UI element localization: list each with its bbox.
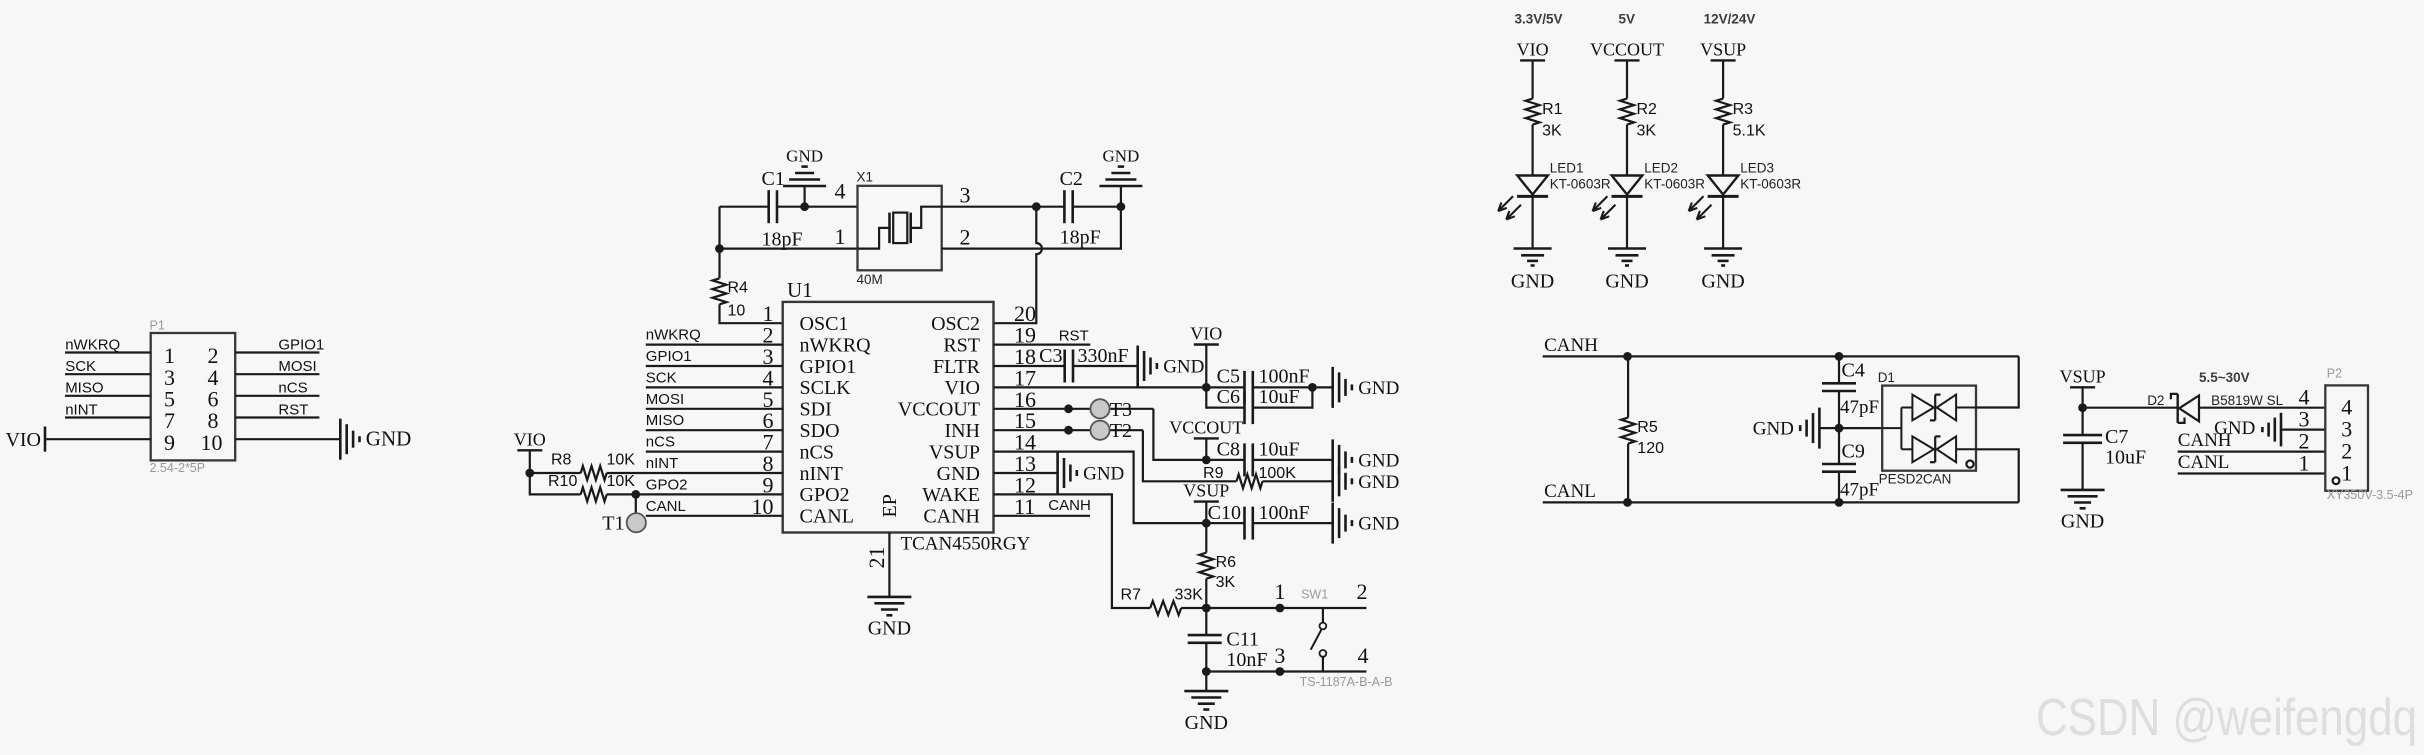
capacitor C2 (1063, 190, 1066, 223)
svg-text:D1: D1 (1878, 370, 1895, 385)
wire VCCOUT to R2 (1626, 60, 1628, 98)
svg-text:10: 10 (728, 303, 746, 320)
junction node OSC2 top (1032, 202, 1041, 211)
svg-text:C2: C2 (1060, 168, 1083, 190)
wire C7 top (2082, 408, 2084, 435)
svg-text:GND: GND (1185, 712, 1228, 734)
svg-text:GND: GND (1605, 271, 1648, 293)
svg-text:C10: C10 (1208, 502, 1241, 524)
switch SW1 (1322, 608, 1324, 623)
svg-text:C8: C8 (1217, 438, 1240, 460)
svg-text:10uF: 10uF (1259, 438, 1300, 460)
svg-text:R8: R8 (551, 452, 572, 469)
svg-text:nINT: nINT (800, 463, 843, 485)
svg-text:3: 3 (960, 182, 971, 207)
test point T3 (1090, 399, 1109, 418)
svg-text:R6: R6 (1216, 554, 1237, 571)
power flag VSUP at R3 (1711, 59, 1736, 61)
power flag VSUP at C10 (1194, 500, 1219, 502)
wire R9 to GND (1263, 480, 1333, 482)
svg-text:C4: C4 (1842, 360, 1865, 382)
svg-text:WAKE: WAKE (922, 484, 980, 506)
ground GND at C10 (1331, 503, 1334, 544)
wire net MISO to U1 pin 6 (646, 429, 783, 431)
svg-text:GPIO1: GPIO1 (800, 356, 857, 378)
wire U1 pin 19 RST (994, 344, 1091, 346)
ground GND at C3 (1136, 346, 1139, 387)
wire R7 to SW1 pin 2 (1181, 607, 1366, 609)
resistor R7 (1150, 601, 1181, 615)
wire R8 to U1 pin 8 (607, 472, 783, 474)
wire P1 pin 6 to net nCS (235, 395, 319, 397)
wire net MISO to P1 pin 5 (65, 395, 151, 397)
svg-text:U1: U1 (787, 278, 813, 302)
wire C9 to CANL (1838, 472, 1840, 503)
svg-text:1: 1 (2299, 451, 2310, 476)
wire C6 left branch (1206, 387, 1244, 407)
ground GND at C8 (1331, 439, 1334, 480)
resistor R10 (581, 487, 607, 501)
wire C7 bottom (2082, 443, 2084, 490)
power flag VIO at C5 (1194, 343, 1219, 345)
svg-text:GND: GND (2061, 511, 2104, 533)
svg-text:FLTR: FLTR (933, 356, 981, 378)
wire CANH to C4 (1838, 356, 1840, 383)
wire LED2 to GND (1626, 196, 1628, 248)
svg-text:3K: 3K (1216, 574, 1236, 591)
svg-text:R3: R3 (1733, 101, 1754, 118)
wire VSUP row to D2 (2083, 407, 2178, 409)
junction node SW1 pin 3 (1276, 667, 1285, 676)
svg-text:RST: RST (278, 401, 308, 418)
capacitor C6 (1243, 391, 1246, 424)
wire D2 to P2 pin 4 (2199, 407, 2325, 409)
ground GND below C11 (1184, 690, 1228, 693)
wire net nCS to U1 pin 7 (646, 451, 783, 453)
wire VCCOUT down to C8 row (1153, 409, 1244, 460)
wire C11 bottom to SW1 pin 4 (1205, 643, 1207, 672)
test point T2 (1090, 421, 1109, 440)
svg-text:nWKRQ: nWKRQ (800, 334, 872, 356)
wire net MOSI to U1 pin 5 (646, 408, 783, 410)
wire CANH to D1 upper right (1976, 356, 2019, 407)
svg-text:nCS: nCS (278, 380, 307, 397)
LED LED2 (1612, 176, 1643, 195)
resistor R3 (1716, 99, 1730, 125)
port VIO (44, 427, 47, 452)
test point T1 (627, 513, 646, 532)
svg-text:SDI: SDI (800, 399, 832, 421)
junction node C5-C6 right (1308, 383, 1317, 392)
IC U1 body (783, 302, 994, 533)
wire P1 pin 8 to net RST (235, 416, 319, 418)
wire GND stem below C11 (1205, 672, 1207, 692)
power flag VIO at R1 (1520, 59, 1545, 61)
wire VSUP to R3 (1722, 60, 1724, 98)
power flag VCCOUT at R2 (1615, 59, 1640, 61)
wire mid node to C9 (1838, 428, 1840, 464)
svg-text:GND: GND (1701, 271, 1744, 293)
resistor R2 (1620, 99, 1634, 125)
svg-text:3.3V/5V: 3.3V/5V (1514, 11, 1562, 26)
svg-text:CSDN @weifengdq: CSDN @weifengdq (2036, 689, 2417, 747)
wire OSC1 vertical to R4 (718, 207, 720, 279)
junction node T2 (1064, 426, 1073, 435)
wire C6 right branch (1253, 387, 1313, 407)
svg-text:OSC2: OSC2 (931, 313, 980, 335)
power flag VIO at R8 (517, 449, 542, 451)
wire R10 to U1 pin 9 (607, 493, 783, 495)
svg-text:KT-0603R: KT-0603R (1740, 176, 1801, 191)
svg-text:CANL: CANL (1544, 481, 1596, 502)
resistor R1 (1526, 99, 1540, 125)
connector P2 body (2325, 385, 2368, 490)
ground GND above C1 (783, 185, 826, 188)
svg-text:CANH: CANH (2178, 430, 2232, 451)
svg-text:SCK: SCK (646, 369, 677, 386)
junction node C11-GND (1202, 667, 1211, 676)
wire VIO flag stem (529, 450, 531, 473)
svg-text:40M: 40M (857, 272, 883, 287)
svg-text:X1: X1 (857, 170, 874, 185)
wire U1 pin 11 CANH (994, 515, 1091, 517)
junction node CANH-C4 (1835, 352, 1844, 361)
crystal X1 body (858, 186, 942, 270)
svg-text:47pF: 47pF (1840, 397, 1879, 418)
svg-text:2: 2 (960, 225, 971, 250)
pin 1 marker of P2 (2333, 477, 2340, 484)
ground GND at U1 pin 13 (1056, 453, 1059, 494)
wire U1 pin 18 to C3 (994, 365, 1065, 367)
svg-text:VIO: VIO (944, 377, 980, 399)
capacitor C3 (1063, 350, 1066, 383)
wire C8 to GND (1253, 459, 1333, 461)
wire P1 pin 4 to net MOSI (235, 373, 319, 375)
wire LED1 to GND (1531, 196, 1533, 248)
svg-text:4: 4 (1358, 643, 1369, 668)
wire VIO flag stem at C5 (1205, 345, 1207, 388)
resistor R9 (1237, 474, 1263, 488)
svg-text:VIO: VIO (1190, 324, 1222, 344)
svg-text:SDO: SDO (800, 420, 840, 442)
svg-text:VCCOUT: VCCOUT (898, 399, 980, 421)
wire INH down to R9 (1143, 430, 1237, 481)
wire crystal pin 2 to C2 ground branch (942, 207, 1121, 249)
ground GND below LED3 (1704, 247, 1742, 250)
wire P1 pin 2 to net GPIO1 (235, 351, 319, 353)
svg-text:R9: R9 (1203, 465, 1224, 482)
wire VIO port to P1 pin 9 (45, 438, 151, 440)
junction node T1 (631, 490, 640, 499)
svg-text:C3: C3 (1039, 345, 1062, 367)
wire net nWKRQ to U1 pin 2 (646, 344, 783, 346)
svg-text:T1: T1 (602, 512, 624, 534)
svg-text:GPO2: GPO2 (800, 484, 850, 506)
svg-text:R4: R4 (728, 280, 749, 297)
svg-text:TCAN4550RGY: TCAN4550RGY (901, 534, 1031, 555)
wire CANH to P2 pin 2 (2178, 451, 2326, 453)
wire VIO to R10 branch (530, 473, 581, 494)
svg-text:RST: RST (1059, 328, 1089, 345)
svg-text:nCS: nCS (800, 441, 834, 463)
capacitor C7 (2063, 434, 2102, 437)
svg-text:MOSI: MOSI (646, 391, 684, 408)
svg-text:VIO: VIO (1517, 39, 1549, 59)
svg-text:LED2: LED2 (1644, 161, 1678, 176)
svg-text:1: 1 (1274, 579, 1285, 604)
svg-text:nWKRQ: nWKRQ (65, 336, 120, 353)
wire C1 to crystal pin 4 (777, 206, 858, 208)
svg-text:EP: EP (879, 494, 901, 517)
svg-text:5.5~30V: 5.5~30V (2199, 370, 2250, 385)
wire R2 to LED2 (1626, 125, 1628, 176)
svg-text:12V/24V: 12V/24V (1704, 11, 1756, 26)
wire net SCK to U1 pin 4 (646, 386, 783, 388)
svg-text:VIO: VIO (514, 429, 546, 449)
svg-text:GPO2: GPO2 (646, 476, 688, 493)
svg-text:100nF: 100nF (1259, 365, 1310, 387)
svg-text:10nF: 10nF (1226, 649, 1267, 671)
svg-text:3K: 3K (1542, 123, 1562, 140)
svg-text:47pF: 47pF (1840, 479, 1879, 500)
resistor R5 (1627, 356, 1629, 417)
svg-text:TS-1187A-B-A-B: TS-1187A-B-A-B (1300, 675, 1393, 689)
junction node VIO-R8 (525, 469, 534, 478)
svg-text:18pF: 18pF (762, 229, 803, 251)
junction node VSUP-C7 (2078, 403, 2087, 412)
svg-text:5.1K: 5.1K (1733, 123, 1766, 140)
wire C11 top (1205, 608, 1207, 635)
ground GND below LED2 (1608, 247, 1646, 250)
svg-text:100K: 100K (1259, 465, 1297, 482)
svg-text:GPIO1: GPIO1 (278, 336, 324, 353)
svg-text:CANL: CANL (2178, 452, 2230, 473)
svg-text:SCLK: SCLK (800, 377, 852, 399)
resistor R8 (581, 466, 607, 480)
capacitor C4 (1822, 382, 1856, 385)
svg-text:10K: 10K (607, 473, 636, 490)
ground GND at C4-C9 (1819, 427, 1839, 429)
wire net nINT to P1 pin 7 (65, 416, 151, 418)
svg-text:GND: GND (786, 147, 823, 166)
wire net SCK to P1 pin 3 (65, 373, 151, 375)
wire CANL to P2 pin 1 (2178, 472, 2326, 474)
svg-text:10uF: 10uF (2105, 447, 2146, 469)
svg-text:VSUP: VSUP (2060, 366, 2106, 386)
svg-text:B5819W SL: B5819W SL (2211, 393, 2284, 408)
wire U1 pin 16 VCCOUT (994, 408, 1154, 410)
svg-text:LED3: LED3 (1740, 161, 1774, 176)
svg-text:C1: C1 (762, 168, 785, 190)
wire CANH bus (1543, 355, 2019, 357)
svg-text:GND: GND (1358, 378, 1399, 399)
svg-text:GND: GND (1358, 514, 1399, 535)
wire GND to P2 pin 3 (2281, 429, 2325, 431)
svg-text:33K: 33K (1175, 587, 1204, 604)
wire mid node to D1 pin 3 (1839, 427, 1882, 429)
capacitor C9 (1822, 463, 1856, 466)
capacitor C8 (1243, 443, 1246, 476)
junction node T3 (1064, 404, 1073, 413)
svg-text:nWKRQ: nWKRQ (646, 327, 701, 344)
svg-text:VSUP: VSUP (1183, 481, 1229, 501)
svg-text:CANH: CANH (1048, 497, 1091, 514)
junction node C1-GND (800, 202, 809, 211)
wire GND stem above C1 (803, 186, 805, 207)
junction node CANH-R5 (1623, 352, 1632, 361)
svg-text:XY350V-3.5-4P: XY350V-3.5-4P (2327, 488, 2413, 502)
wire U1 pin 17 VIO to C5 (994, 386, 1245, 388)
wire T1 stem (635, 494, 637, 513)
wire crystal pin 3 to C2 (942, 206, 1065, 208)
connector P1 body (151, 333, 236, 460)
LED LED3 (1708, 176, 1739, 195)
junction node C2-GND (1117, 202, 1126, 211)
capacitor C1 (767, 190, 770, 223)
wire VSUP flag stem (1205, 502, 1207, 523)
svg-text:nINT: nINT (65, 401, 98, 418)
svg-text:C6: C6 (1217, 386, 1240, 408)
svg-text:GND: GND (1511, 271, 1554, 293)
resistor R4 (713, 278, 727, 304)
wire net nWKRQ to P1 pin 1 (65, 351, 151, 353)
svg-text:100nF: 100nF (1259, 502, 1310, 524)
svg-text:GND: GND (937, 463, 980, 485)
svg-text:RST: RST (943, 334, 980, 356)
svg-text:GND: GND (1083, 464, 1124, 485)
wire U1 pin 14 VSUP down to C10 (994, 452, 1245, 523)
svg-text:9: 9 (164, 430, 175, 455)
svg-text:R10: R10 (548, 473, 577, 490)
junction node CANL-C9 (1835, 498, 1844, 507)
junction node C4-C9-D1 (1835, 424, 1844, 433)
wire U1 pin 13 to GND (994, 472, 1058, 474)
svg-text:10uF: 10uF (1259, 386, 1300, 408)
junction node SW1 pin 1 (1276, 604, 1285, 613)
ground GND below LED1 (1514, 247, 1552, 250)
svg-text:1: 1 (2341, 461, 2352, 486)
svg-text:VSUP: VSUP (929, 441, 980, 463)
wire VCCOUT flag stem (1205, 438, 1207, 460)
svg-text:MISO: MISO (646, 412, 684, 429)
svg-text:GPIO1: GPIO1 (646, 348, 692, 365)
svg-text:INH: INH (944, 420, 980, 442)
wire U1 pin 15 INH (994, 429, 1143, 431)
wire EP pin stub (888, 533, 890, 597)
svg-text:GND: GND (366, 427, 412, 451)
svg-text:120: 120 (1637, 440, 1664, 457)
junction node R6-R7-C11 (1202, 604, 1211, 613)
svg-text:GND: GND (1163, 357, 1204, 378)
svg-text:GND: GND (1358, 450, 1399, 471)
svg-text:3: 3 (1274, 643, 1285, 668)
wire CANL to D1 lower right (1976, 449, 2019, 502)
power flag VCCOUT (1194, 437, 1219, 439)
wire R1 to LED1 (1531, 125, 1533, 176)
wire VIO to R8 (530, 472, 581, 474)
wire R4 to U1 pin 1 (720, 304, 783, 323)
svg-text:CANL: CANL (800, 506, 854, 528)
wire OSC2 vertical with hop (994, 207, 1042, 324)
svg-text:GND: GND (1753, 419, 1794, 440)
wire net CANL to U1 pin 10 (646, 515, 783, 517)
svg-text:KT-0603R: KT-0603R (1550, 176, 1611, 191)
svg-text:LED1: LED1 (1550, 161, 1584, 176)
ground GND below EP (867, 596, 911, 599)
junction node VCCOUT-C8 (1202, 456, 1211, 465)
svg-text:CANL: CANL (646, 498, 686, 515)
svg-text:C11: C11 (1226, 628, 1259, 650)
svg-text:P2: P2 (2327, 367, 2342, 381)
svg-text:18pF: 18pF (1060, 227, 1101, 249)
svg-text:R5: R5 (1637, 419, 1658, 436)
svg-text:3K: 3K (1637, 123, 1657, 140)
svg-text:330nF: 330nF (1078, 345, 1129, 367)
ground GND below C7 (2061, 489, 2105, 492)
svg-text:P1: P1 (150, 319, 165, 333)
svg-text:1: 1 (835, 224, 846, 249)
wire C5 to GND (1253, 386, 1333, 388)
svg-text:C9: C9 (1842, 441, 1865, 463)
wire C10 to GND (1253, 522, 1333, 524)
svg-text:VSUP: VSUP (1700, 39, 1746, 59)
svg-text:MOSI: MOSI (278, 358, 316, 375)
svg-text:VIO: VIO (5, 429, 41, 451)
svg-text:SCK: SCK (65, 358, 96, 375)
TVS diode D1 body (1882, 386, 1976, 471)
wire C3 to GND (1073, 365, 1138, 367)
svg-text:CANH: CANH (1544, 335, 1598, 356)
svg-text:KT-0603R: KT-0603R (1644, 176, 1705, 191)
svg-text:10: 10 (201, 430, 223, 455)
wire crystal pin 1 (720, 248, 858, 250)
wire VIO to R1 (1531, 60, 1533, 98)
crystal X1 symbol (888, 213, 891, 244)
pin 1 marker of D1 (1966, 461, 1973, 468)
svg-text:OSC1: OSC1 (800, 313, 849, 335)
wire VSUP flag stem (2082, 387, 2084, 407)
svg-text:R1: R1 (1542, 101, 1563, 118)
wire CANL bus (1543, 501, 2019, 503)
wire LED3 to GND (1722, 196, 1724, 248)
wire R3 to LED3 (1722, 125, 1724, 176)
ground GND at C5 C6 (1331, 367, 1334, 408)
wire C10 junction down to R6 (1205, 523, 1207, 553)
svg-text:VCCOUT: VCCOUT (1169, 417, 1243, 437)
ground GND above C2 (1099, 185, 1142, 188)
power flag VSUP at C7 (2070, 386, 2095, 388)
svg-text:MISO: MISO (65, 380, 103, 397)
svg-text:D2: D2 (2147, 393, 2164, 408)
svg-text:21: 21 (864, 547, 889, 569)
svg-text:4: 4 (835, 179, 846, 204)
svg-text:CANH: CANH (923, 506, 980, 528)
svg-text:T2: T2 (1110, 420, 1132, 442)
LED LED1 (1517, 176, 1548, 195)
wire GND stem above C2 (1120, 186, 1122, 207)
svg-text:T3: T3 (1110, 399, 1132, 421)
capacitor C10 (1243, 507, 1246, 540)
ground GND at R9 (1331, 461, 1334, 502)
svg-text:C5: C5 (1217, 365, 1240, 387)
svg-text:2.54-2*5P: 2.54-2*5P (150, 461, 206, 475)
svg-text:GND: GND (1102, 147, 1139, 166)
svg-text:10K: 10K (607, 452, 636, 469)
junction node crystal pin1 (715, 244, 724, 253)
wire U1 pin 12 WAKE down to R7 (994, 494, 1151, 608)
svg-text:SW1: SW1 (1301, 588, 1328, 602)
TVS diode D1 internal symbol (1900, 408, 1902, 450)
